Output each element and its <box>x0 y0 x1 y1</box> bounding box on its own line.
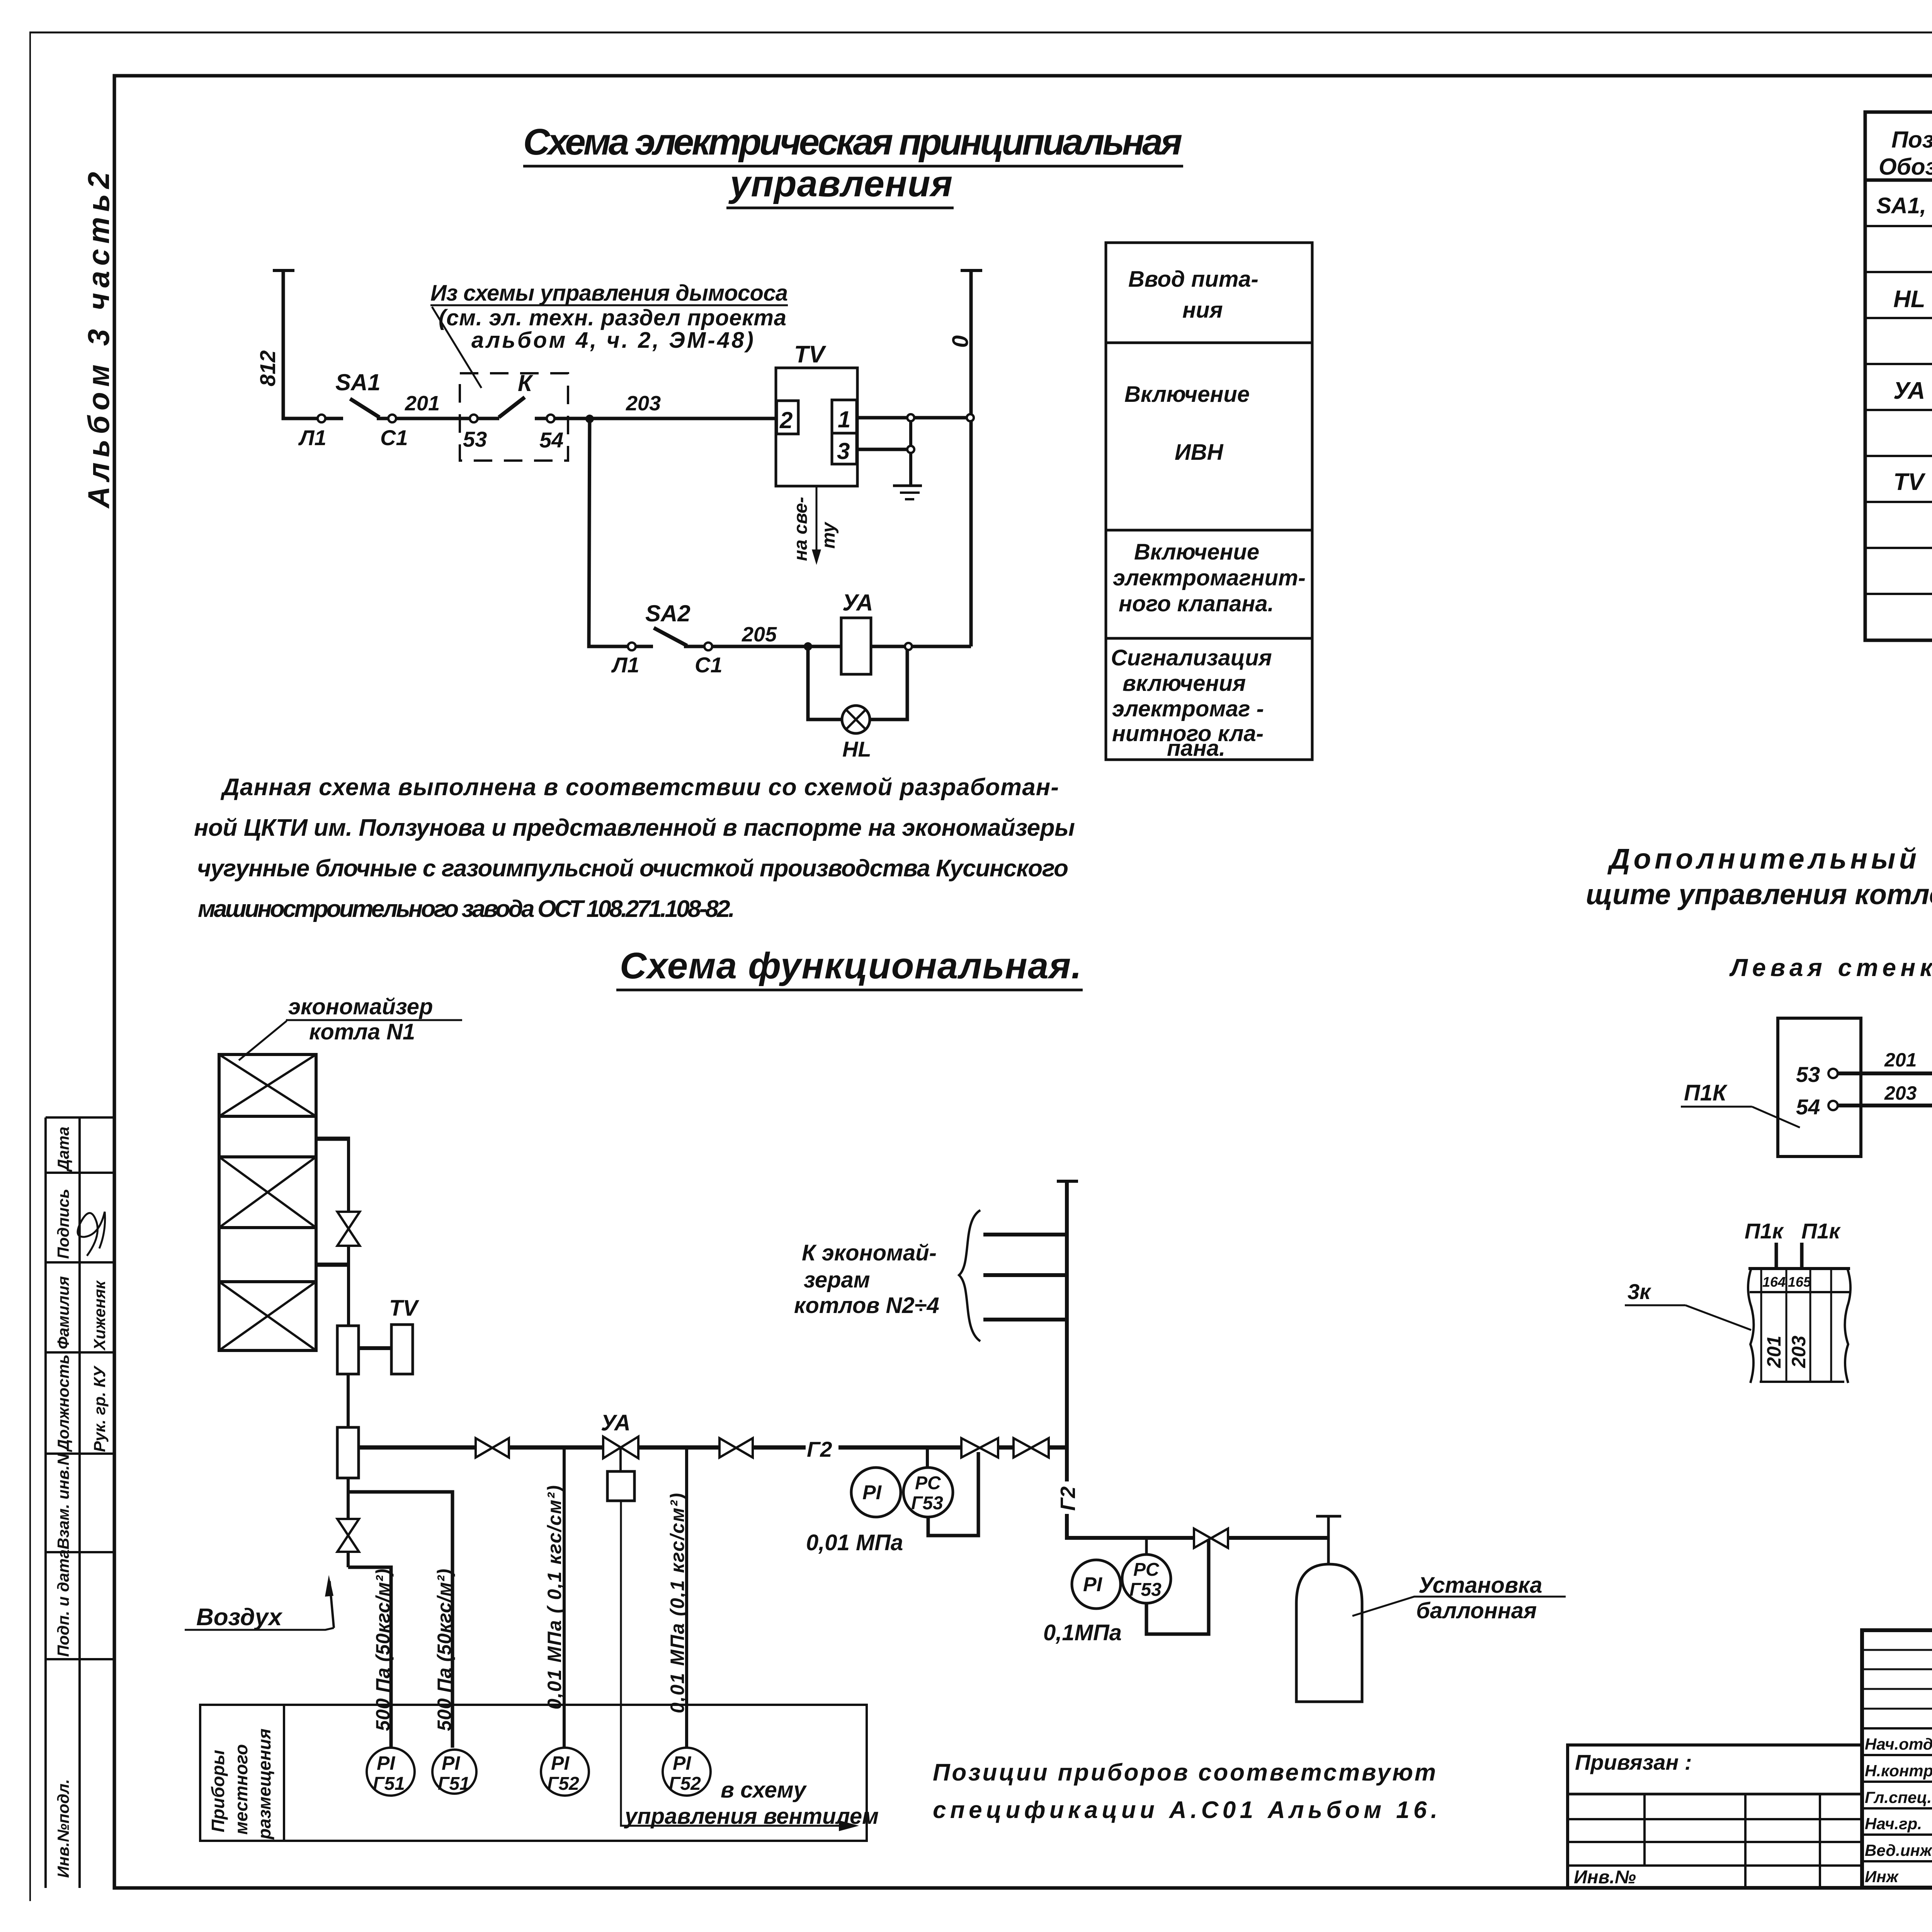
bus L vertical wire <box>283 270 318 418</box>
wire L1-SA1 <box>325 417 343 420</box>
svg-text:включения: включения <box>1122 671 1246 696</box>
svg-text:TV: TV <box>389 1296 419 1321</box>
svg-text:Нач.гр.: Нач.гр. <box>1865 1815 1922 1833</box>
svg-text:электромагнит-: электромагнит- <box>1113 565 1306 590</box>
bottle stem <box>1327 1516 1330 1564</box>
transformer TV box <box>776 368 857 486</box>
contact K blade <box>499 397 525 417</box>
svg-text:Воздух: Воздух <box>196 1604 283 1631</box>
drop wire to SA2 row <box>589 419 628 646</box>
TV pin 2 <box>777 401 798 434</box>
svg-text:0: 0 <box>948 335 973 348</box>
YA control line to valve scheme <box>621 1501 853 1826</box>
bus 0 vertical wire <box>969 270 973 646</box>
pipe down <box>347 1374 350 1427</box>
svg-text:ту: ту <box>818 522 839 549</box>
svg-text:Рук. гр. КУ: Рук. гр. КУ <box>90 1365 109 1452</box>
switch SA1 blade <box>350 399 379 417</box>
wire 201 <box>377 417 470 420</box>
svg-text:электромаг -: электромаг - <box>1112 696 1264 721</box>
tap 3 line <box>563 1447 566 1748</box>
svg-text:в схему: в схему <box>721 1777 807 1803</box>
svg-text:(см. эл. техн. раздел проекта: (см. эл. техн. раздел проекта <box>439 305 786 330</box>
svg-text:зерам: зерам <box>804 1267 870 1293</box>
svg-text:Установка: Установка <box>1418 1573 1542 1598</box>
signature squiggle <box>78 1212 105 1256</box>
svg-text:Н.контр.: Н.контр. <box>1865 1762 1932 1780</box>
svg-text:500 Па (50кгс/м²): 500 Па (50кгс/м²) <box>372 1569 394 1731</box>
node on bus 0 <box>967 414 974 421</box>
dashed box K relay contact <box>460 373 568 461</box>
svg-text:местного: местного <box>231 1744 251 1835</box>
X pattern section 3 <box>219 1157 316 1228</box>
svg-text:Инж: Инж <box>1865 1867 1899 1886</box>
svg-text:Из схемы управления дымососа: Из схемы управления дымососа <box>430 281 788 306</box>
svg-text:управления вентилем: управления вентилем <box>624 1804 879 1829</box>
name rows <box>1862 1728 1932 1861</box>
svg-text:Г52: Г52 <box>669 1774 701 1794</box>
wire 203 to 3K <box>1838 1104 1932 1107</box>
solenoid coil YA <box>841 618 871 674</box>
economizers bus <box>1065 1181 1069 1481</box>
tap 1 stub <box>348 1567 391 1748</box>
svg-text:П1к: П1к <box>1745 1219 1784 1243</box>
svg-text:Схема функциональная.: Схема функциональная. <box>620 945 1082 986</box>
row SA1,SA2 <box>1876 193 1932 543</box>
svg-text:Г53: Г53 <box>1129 1580 1162 1600</box>
node L1 row2 <box>628 643 636 650</box>
svg-text:53: 53 <box>463 427 487 451</box>
wire 203 <box>554 417 777 420</box>
svg-text:203: 203 <box>626 392 661 415</box>
svg-text:SA2: SA2 <box>645 600 690 626</box>
svg-text:Привязан :: Привязан : <box>1575 1750 1692 1774</box>
privyazan box <box>1568 1745 1862 1888</box>
svg-text:HL: HL <box>842 737 871 761</box>
gauge PI G52 #3 <box>541 1748 589 1796</box>
economizer boiler N1 block <box>219 1054 316 1350</box>
svg-text:машиностроительного завода О: машиностроительного завода ОСТ 108.271.1… <box>198 896 735 922</box>
svg-text:Включение: Включение <box>1134 539 1259 565</box>
svg-text:С1: С1 <box>695 653 723 677</box>
controller 2 loop <box>1146 1540 1209 1634</box>
node C1 row2 <box>704 643 712 650</box>
node at pin1 wire <box>907 414 914 421</box>
svg-text:Инв.№подл.: Инв.№подл. <box>54 1779 72 1878</box>
svg-text:экономайзер: экономайзер <box>288 994 433 1019</box>
narrow grid rows <box>1862 1650 1932 1709</box>
bus 0 top tick <box>961 269 982 272</box>
panel P1K box <box>1778 1018 1861 1156</box>
outer thin top line <box>29 32 1932 34</box>
local instruments box <box>200 1705 867 1841</box>
svg-text:П1К: П1К <box>1684 1080 1728 1105</box>
svg-text:Подпись: Подпись <box>54 1189 72 1259</box>
svg-text:PI: PI <box>377 1752 395 1774</box>
stub to boiler 3 <box>983 1273 1067 1277</box>
valve 6 <box>1194 1529 1228 1548</box>
svg-text:TV: TV <box>1893 469 1926 495</box>
svg-text:201: 201 <box>405 392 440 415</box>
svg-text:Данная схема выполнена в с: Данная схема выполнена в соответствии со… <box>220 774 1059 801</box>
function boxes frame <box>1106 243 1312 760</box>
stub to boiler 2 <box>983 1233 1067 1236</box>
svg-text:0,01 МПа ( 0,1 кгс/см²): 0,01 МПа ( 0,1 кгс/см²) <box>544 1485 565 1709</box>
svg-text:ного клапана.: ного клапана. <box>1119 591 1274 616</box>
TV spark box <box>391 1325 413 1374</box>
svg-text:164: 164 <box>1762 1274 1786 1290</box>
PARTS-TABLE <box>1865 112 1932 640</box>
wire 201 to 3K <box>1838 1071 1932 1075</box>
svg-text:котлов N2÷4: котлов N2÷4 <box>794 1293 939 1318</box>
wires into terminal strip <box>1775 1243 1778 1269</box>
svg-text:К экономай-: К экономай- <box>802 1240 937 1265</box>
X pattern section 1 <box>219 1054 316 1116</box>
svg-text:котла N1: котла N1 <box>309 1019 415 1044</box>
bus lower segment <box>1067 1514 1194 1538</box>
svg-text:3: 3 <box>837 438 850 464</box>
FUNCTIONAL-SCHEMA <box>185 945 1566 1841</box>
pressure pair 1 tap <box>926 1447 929 1468</box>
gauge PI G51 #1 <box>367 1748 415 1796</box>
wire to bus <box>915 416 966 420</box>
valve 1 <box>476 1438 509 1458</box>
stub pipe lower <box>316 1263 350 1267</box>
svg-text:PI: PI <box>442 1752 460 1774</box>
valve on riser <box>337 1212 360 1246</box>
valve 2 <box>719 1438 753 1458</box>
svg-text:Схема электрическая принципи: Схема электрическая принципиальная <box>523 121 1182 163</box>
controller loop to pipe <box>928 1452 978 1536</box>
svg-text:баллонная: баллонная <box>1416 1598 1537 1623</box>
gauge PI G51 #2 <box>432 1750 476 1794</box>
svg-text:54: 54 <box>539 428 563 452</box>
ground <box>893 485 922 487</box>
svg-text:Л1: Л1 <box>611 653 639 677</box>
solenoid valve YA on pipe <box>603 1437 638 1458</box>
svg-text:HL: HL <box>1893 286 1925 313</box>
svg-text:54: 54 <box>1796 1095 1820 1119</box>
svg-text:управления: управления <box>728 163 952 204</box>
svg-text:PI: PI <box>862 1481 882 1504</box>
svg-text:Г2: Г2 <box>1056 1486 1080 1511</box>
stub pipe upper <box>316 1137 350 1141</box>
valve 5a <box>961 1438 998 1458</box>
link device-TV <box>359 1346 391 1350</box>
pressure pair 2: gauge PI <box>1072 1560 1121 1609</box>
left stamp table <box>46 1117 114 1888</box>
junction dot before YA <box>804 642 812 651</box>
svg-text:Инв.№: Инв.№ <box>1574 1867 1636 1888</box>
stub to boiler 4 <box>983 1318 1067 1321</box>
svg-text:Дата: Дата <box>54 1127 72 1172</box>
tap 4 line <box>685 1447 688 1748</box>
bus L (812) top tick <box>273 269 294 272</box>
svg-text:PC: PC <box>915 1473 941 1493</box>
vertical between nodes <box>909 421 912 446</box>
svg-text:3к: 3к <box>1628 1279 1651 1304</box>
svg-text:Г51: Г51 <box>438 1774 470 1794</box>
terminal strip 3K <box>1748 1269 1754 1383</box>
svg-text:205: 205 <box>742 623 777 646</box>
svg-text:1: 1 <box>838 406 850 432</box>
valve 5b <box>1014 1438 1049 1458</box>
LEFT-MARGIN <box>46 172 116 1888</box>
svg-text:Включение: Включение <box>1124 382 1250 407</box>
svg-text:Обознач.: Обознач. <box>1879 154 1932 180</box>
TV pin 1 <box>832 400 857 433</box>
svg-text:ной ЦКТИ им. Ползунова и пред: ной ЦКТИ им. Ползунова и представленной … <box>194 815 1075 841</box>
impulse device 2 <box>337 1427 359 1478</box>
node 53 <box>470 415 478 422</box>
svg-text:щите управления котлоагрегат: щите управления котлоагрегата ЩКЕ <box>1586 878 1932 910</box>
note: from dymosos control scheme <box>430 281 788 353</box>
stamp labels rotated <box>54 1127 109 1878</box>
svg-text:чугунные блочные с газоимп: чугунные блочные с газоимпульсной очистк… <box>197 855 1068 882</box>
main gas pipe <box>359 1446 477 1450</box>
svg-text:201: 201 <box>1763 1336 1785 1368</box>
node circles redraw <box>318 414 974 650</box>
node 54 <box>547 415 554 422</box>
svg-text:УА: УА <box>1893 378 1925 404</box>
svg-text:Подп. и дата: Подп. и дата <box>54 1549 72 1657</box>
wire to node 54 <box>535 417 547 420</box>
wire pin1 to bus 0 <box>857 416 907 420</box>
svg-text:PI: PI <box>551 1752 570 1774</box>
header texts <box>1879 127 1932 180</box>
svg-text:SA1: SA1 <box>335 369 381 395</box>
svg-text:Г53: Г53 <box>911 1493 943 1514</box>
riser pipe <box>347 1139 350 1212</box>
air inlet flow arrow <box>330 1581 334 1628</box>
svg-text:на све-: на све- <box>791 497 811 561</box>
svg-text:УА: УА <box>601 1410 631 1435</box>
NOTE-PARAGRAPH <box>194 774 1075 922</box>
brace <box>959 1210 980 1341</box>
svg-text:К: К <box>518 370 534 396</box>
svg-text:П1к: П1к <box>1801 1219 1841 1243</box>
switch SA2 blade <box>654 628 687 646</box>
MOUNT-SECTION <box>1586 843 1932 1383</box>
svg-text:Ввод пита-: Ввод пита- <box>1128 267 1259 292</box>
svg-text:Гл.спец.: Гл.спец. <box>1865 1788 1932 1806</box>
gauge PI G52 #4 <box>663 1748 711 1796</box>
outer thin left line <box>29 32 31 1901</box>
wire coil to bus <box>871 645 971 648</box>
svg-text:Г51: Г51 <box>373 1774 405 1794</box>
svg-text:PC: PC <box>1133 1560 1160 1580</box>
controller PC G53 <box>903 1468 953 1517</box>
svg-text:Г52: Г52 <box>547 1774 579 1794</box>
svg-text:PI: PI <box>1083 1573 1103 1596</box>
svg-text:PI: PI <box>673 1752 691 1774</box>
wire 53 stub <box>478 417 499 420</box>
air valve <box>337 1519 359 1552</box>
svg-text:Взам. инв.N: Взам. инв.N <box>54 1453 72 1549</box>
pipe down to device <box>347 1265 350 1326</box>
svg-text:203: 203 <box>1884 1082 1917 1104</box>
pipe below device 2 <box>347 1478 350 1492</box>
svg-text:Хиженяк: Хиженяк <box>90 1280 109 1351</box>
table grid <box>1865 112 1932 640</box>
svg-text:165: 165 <box>1788 1274 1811 1290</box>
svg-text:Приборы: Приборы <box>208 1750 228 1832</box>
wire down to ground <box>909 453 912 486</box>
svg-text:Левая стенка: Левая стенка <box>1729 954 1932 981</box>
svg-text:201: 201 <box>1884 1049 1917 1071</box>
svg-text:0,01 МПа: 0,01 МПа <box>806 1530 903 1555</box>
lamp branch right wire <box>870 646 907 719</box>
TV pin 3 <box>832 433 857 464</box>
air riser <box>347 1492 350 1519</box>
wire 205 <box>684 645 841 648</box>
svg-text:Вед.инж.: Вед.инж. <box>1865 1841 1932 1859</box>
svg-text:С1: С1 <box>380 425 408 450</box>
node L1 <box>318 415 325 422</box>
svg-text:2: 2 <box>779 407 793 433</box>
svg-text:203: 203 <box>1788 1335 1810 1368</box>
LABEL-BOX-COLUMN <box>1106 243 1312 761</box>
wire L1-SA2 <box>636 645 653 648</box>
impulse device 1 <box>337 1326 359 1374</box>
wire pin3 <box>857 448 907 451</box>
leader to dashed box <box>432 307 481 388</box>
svg-text:Позиц.: Позиц. <box>1891 127 1932 153</box>
svg-text:Л1: Л1 <box>298 425 327 450</box>
tap 2 stub <box>348 1492 452 1748</box>
svg-text:Дополнительный монтаж в: Дополнительный монтаж в <box>1607 843 1932 875</box>
node at pin3 wire <box>907 446 914 453</box>
role labels <box>1865 1735 1932 1886</box>
svg-text:Должность: Должность <box>54 1354 72 1452</box>
lamp HL <box>842 706 870 733</box>
junction dot on 203 <box>585 415 594 423</box>
node after coil <box>905 643 912 650</box>
svg-text:812: 812 <box>255 350 280 386</box>
arrow na svetu from TV <box>816 486 818 558</box>
TITLE-BLOCK <box>1568 1630 1932 1929</box>
svg-text:Фамилия: Фамилия <box>54 1276 72 1349</box>
svg-text:Нач.отд.: Нач.отд. <box>1865 1735 1932 1753</box>
svg-text:альбом 4, ч. 2, ЭМ-48): альбом 4, ч. 2, ЭМ-48) <box>471 328 753 353</box>
ELECTRICAL-SCHEMATIC <box>255 121 1183 761</box>
svg-text:УА: УА <box>842 590 873 616</box>
svg-text:Сигнализация: Сигнализация <box>1111 645 1272 670</box>
svg-text:SA1, SA2: SA1, SA2 <box>1876 193 1932 218</box>
main title block frame <box>1862 1630 1932 1888</box>
svg-text:ИВН: ИВН <box>1175 440 1224 465</box>
svg-text:500 Па (50кгс/м²): 500 Па (50кгс/м²) <box>434 1569 455 1731</box>
economizers bus top tick <box>1057 1180 1078 1183</box>
lamp branch left wire <box>808 646 842 719</box>
gas bottle <box>1296 1564 1362 1702</box>
svg-text:ния: ния <box>1182 298 1223 323</box>
svg-text:пана.: пана. <box>1167 736 1225 761</box>
leader to economizer <box>239 1021 287 1060</box>
node C1 <box>388 415 396 422</box>
svg-text:TV: TV <box>794 341 827 368</box>
svg-text:Г2: Г2 <box>807 1437 832 1461</box>
svg-text:0,01 МПа (0,1 кгс/см²): 0,01 МПа (0,1 кгс/см²) <box>667 1493 688 1713</box>
gauge PI (0,01 MPa) <box>851 1468 901 1517</box>
svg-text:53: 53 <box>1796 1062 1820 1087</box>
controller PC G53 (2) <box>1122 1554 1171 1603</box>
svg-text:0,1МПа: 0,1МПа <box>1043 1620 1122 1645</box>
svg-text:размещения: размещения <box>254 1728 274 1840</box>
X pattern section 5 <box>219 1282 316 1350</box>
